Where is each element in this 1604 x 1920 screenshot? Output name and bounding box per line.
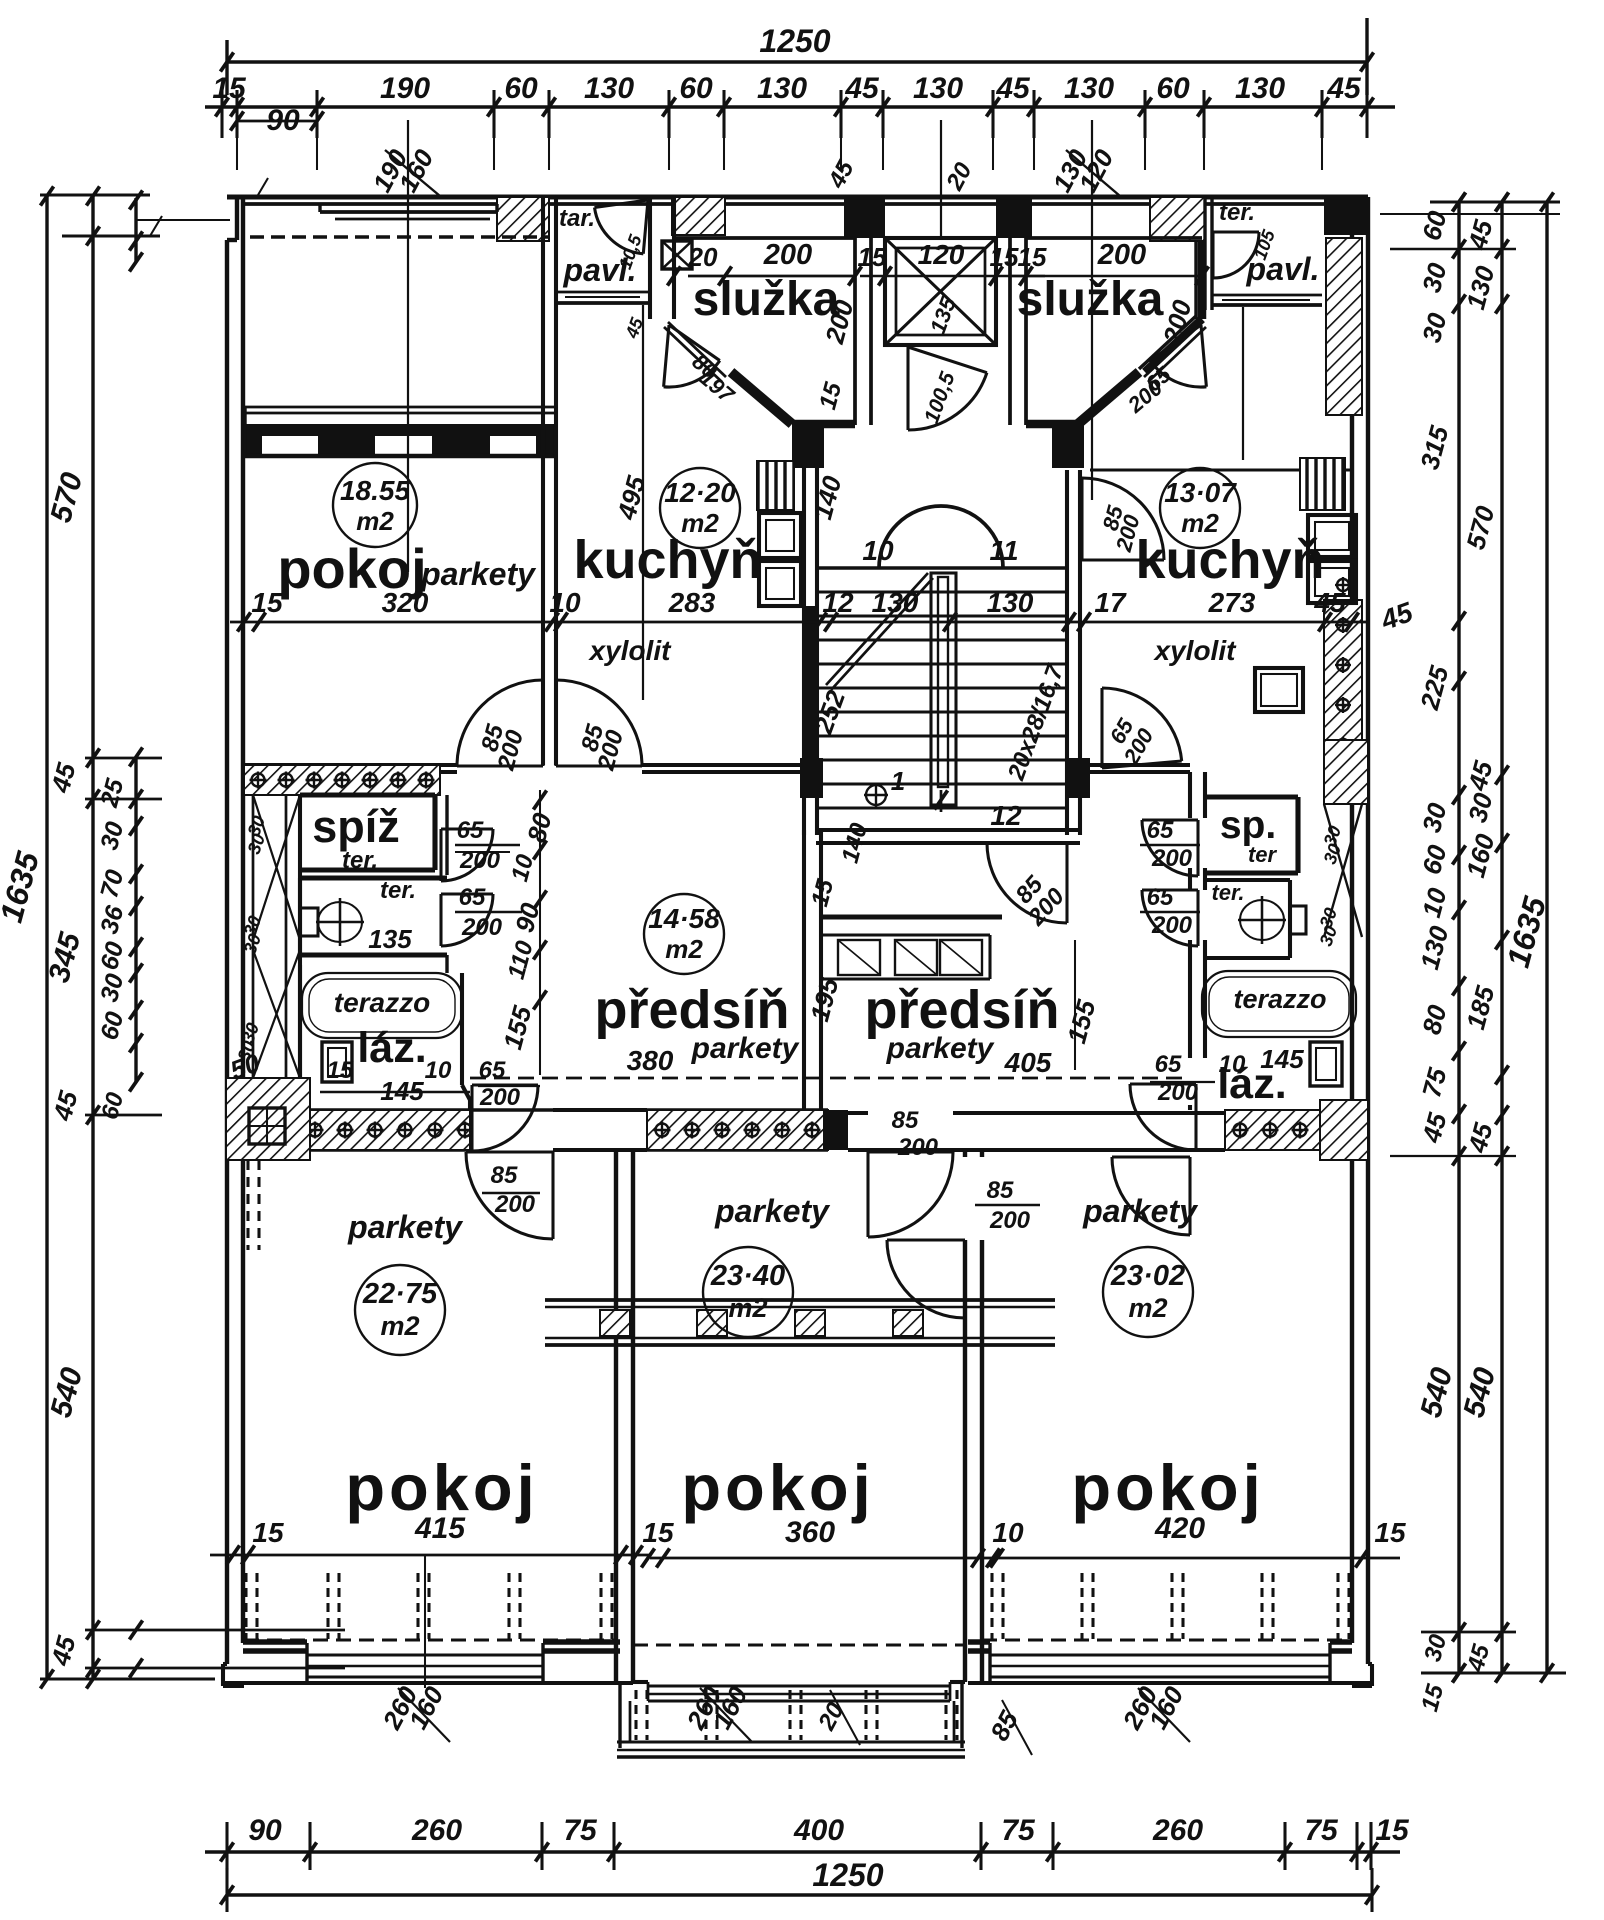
svg-text:420: 420 <box>1154 1512 1205 1545</box>
svg-text:xylolit: xylolit <box>1153 635 1238 666</box>
black pier below sluzka left <box>792 424 824 468</box>
left shaft column <box>298 795 302 1110</box>
svg-text:65: 65 <box>457 817 484 844</box>
bottom dimension chain <box>205 1850 1400 1853</box>
left corner hatch <box>226 1078 310 1160</box>
svg-text:85: 85 <box>987 1177 1014 1204</box>
pokoj window recess top <box>320 210 497 214</box>
svg-text:400: 400 <box>793 1814 844 1847</box>
svg-text:130: 130 <box>1235 72 1285 105</box>
svg-text:15: 15 <box>642 1517 674 1548</box>
radiator dashes pokoj C <box>634 1690 637 1740</box>
svg-text:služka: služka <box>1017 273 1164 326</box>
svg-text:m2: m2 <box>1128 1293 1167 1323</box>
wall pokojC/pokojR <box>963 1150 967 1157</box>
svg-text:415: 415 <box>414 1512 466 1545</box>
svg-text:m2: m2 <box>728 1293 767 1323</box>
sluzka left south wall <box>792 420 855 429</box>
right wall X brace <box>1324 804 1362 937</box>
svg-text:200: 200 <box>479 1084 521 1111</box>
svg-text:kuchyň: kuchyň <box>1135 530 1324 590</box>
svg-text:65: 65 <box>1147 817 1174 844</box>
kuchyn-R door from predsin <box>1100 688 1103 768</box>
svg-text:ter.: ter. <box>380 877 416 904</box>
svg-text:23·40: 23·40 <box>710 1260 785 1292</box>
wc door <box>441 892 493 895</box>
svg-text:předsíň: předsíň <box>594 980 789 1040</box>
sluzka left door leaf <box>668 322 726 377</box>
svg-text:14·58: 14·58 <box>648 903 720 934</box>
svg-text:spíž: spíž <box>312 801 400 852</box>
svg-text:260: 260 <box>411 1814 462 1847</box>
laz small fixture <box>322 1042 352 1082</box>
south band hatched segments with circles <box>300 1108 470 1111</box>
stair up arrow <box>826 573 928 685</box>
stairwell walls <box>802 463 806 835</box>
svg-text:parkety: parkety <box>691 1032 800 1065</box>
right corner hatch <box>1320 1100 1368 1160</box>
svg-text:parkety: parkety <box>420 556 537 592</box>
svg-text:m2: m2 <box>1181 508 1219 538</box>
svg-text:65: 65 <box>1155 1051 1182 1078</box>
svg-text:pokoj: pokoj <box>681 1451 874 1524</box>
svg-text:200: 200 <box>1151 845 1193 872</box>
svg-text:15: 15 <box>1374 1517 1406 1548</box>
svg-text:15: 15 <box>212 72 247 105</box>
svg-text:terazzo: terazzo <box>1233 984 1326 1014</box>
long extension line through pokoj window <box>407 120 409 572</box>
svg-text:45: 45 <box>844 72 880 105</box>
spiz door <box>441 827 493 830</box>
laz room left <box>298 965 302 1110</box>
shaft dims 15 120 15 <box>860 275 1045 278</box>
svg-text:pokoj: pokoj <box>277 537 426 600</box>
svg-text:283: 283 <box>668 587 716 618</box>
svg-text:parkety: parkety <box>1082 1193 1199 1229</box>
svg-text:m2: m2 <box>665 934 703 964</box>
svg-text:145: 145 <box>1260 1044 1304 1074</box>
svg-text:terazzo: terazzo <box>334 987 430 1018</box>
sluzka west wall <box>648 197 652 319</box>
svg-text:85: 85 <box>892 1107 919 1134</box>
svg-text:130: 130 <box>1064 72 1114 105</box>
right outer wall hatch upper <box>1326 238 1362 415</box>
svg-text:12: 12 <box>990 800 1022 831</box>
left fine chain <box>134 198 137 262</box>
svg-text:200: 200 <box>897 1134 939 1161</box>
hatched pier top 1 <box>497 197 549 241</box>
svg-text:45: 45 <box>1313 587 1346 618</box>
stair black piers bottom <box>800 758 823 798</box>
svg-text:15: 15 <box>990 242 1019 272</box>
svg-text:200: 200 <box>461 914 503 941</box>
pokoj R window & parapet <box>968 1639 990 1644</box>
pokoj R labels <box>1103 1247 1193 1337</box>
svg-text:65: 65 <box>459 884 486 911</box>
predsin dashed line <box>470 1077 1190 1080</box>
right fixture box <box>1310 1042 1342 1086</box>
svg-text:130: 130 <box>872 587 919 618</box>
svg-text:60: 60 <box>679 72 713 105</box>
wall pokoj-L / kuchyn-L <box>541 197 545 765</box>
svg-text:12: 12 <box>822 587 854 618</box>
outer left wall <box>225 240 229 1664</box>
svg-text:1250: 1250 <box>759 23 830 59</box>
door predsinL-pokojL <box>551 1152 554 1239</box>
sluzka left walls <box>674 236 855 240</box>
bathtub left <box>302 973 462 1038</box>
interior horizontal dimension chain <box>230 621 1368 624</box>
svg-text:200: 200 <box>763 239 812 271</box>
svg-text:13·07: 13·07 <box>1164 477 1237 508</box>
predsin L labels <box>644 894 724 974</box>
area circle pokoj L <box>333 463 417 547</box>
hatched pier top 2 <box>672 197 725 235</box>
wall predsin R north (y=770) <box>1084 763 1190 767</box>
svg-text:22·75: 22·75 <box>362 1278 438 1310</box>
kuchyn-R north edge & stove <box>1090 468 1352 471</box>
svg-text:135: 135 <box>368 924 412 954</box>
svg-text:ter.: ter. <box>1211 880 1244 905</box>
svg-text:405: 405 <box>1004 1047 1052 1078</box>
svg-text:15: 15 <box>858 242 887 272</box>
pokoj C window & balcony <box>633 1680 648 1684</box>
wc right door <box>1196 890 1199 946</box>
svg-text:ter.: ter. <box>342 847 378 874</box>
svg-text:75: 75 <box>1304 1814 1339 1847</box>
outer right wall <box>1366 197 1370 1664</box>
predsin R door from landing <box>1065 843 1068 923</box>
left chain 570/345/540 <box>91 195 94 1679</box>
sluzka left east wall <box>853 238 857 425</box>
bathtub right <box>1202 971 1356 1037</box>
svg-text:23·02: 23·02 <box>1110 1260 1185 1292</box>
wall pokojL/pokojC <box>614 1150 618 1682</box>
radiator dashes pokoj R <box>990 1573 993 1639</box>
hatched wall band with circles (north of spiz) <box>244 763 440 766</box>
shaft door fan <box>908 347 987 373</box>
svg-text:130: 130 <box>757 72 807 105</box>
black pier top 2 <box>996 197 1032 238</box>
svg-text:předsíň: předsíň <box>864 980 1059 1040</box>
svg-text:45: 45 <box>995 72 1031 105</box>
stair stringer <box>931 573 956 805</box>
sluzka right walls <box>1026 236 1202 240</box>
pokoj C labels <box>703 1247 793 1337</box>
svg-text:parkety: parkety <box>886 1032 995 1065</box>
top overall dimension line 1250 <box>227 60 1367 63</box>
band plain segments <box>470 1108 553 1111</box>
svg-text:120: 120 <box>918 239 965 270</box>
stair treads <box>817 590 1067 593</box>
kuchyn-R cupboards <box>1308 515 1356 557</box>
svg-text:láz.: láz. <box>357 1024 426 1072</box>
wall between predsin halls <box>802 830 806 1110</box>
hatched segment right <box>1225 1110 1344 1150</box>
svg-text:130: 130 <box>913 72 963 105</box>
kuchyn-R sink <box>1255 668 1303 712</box>
svg-text:1: 1 <box>891 766 905 796</box>
outer top wall <box>227 194 1368 199</box>
svg-text:parkety: parkety <box>714 1193 831 1229</box>
svg-text:85: 85 <box>491 1162 518 1189</box>
left pavl window box <box>662 241 692 269</box>
svg-text:380: 380 <box>627 1045 674 1076</box>
right gallery terrace <box>1203 197 1206 310</box>
laz dims <box>320 1091 470 1094</box>
sp door <box>1196 820 1199 876</box>
left gallery vestibule <box>556 291 648 294</box>
svg-text:190: 190 <box>380 72 430 105</box>
area circle kuchyn-L <box>660 468 740 548</box>
svg-text:15: 15 <box>252 1517 284 1548</box>
sluzka right canted wall <box>1078 372 1139 424</box>
svg-text:1250: 1250 <box>812 1857 883 1893</box>
black block predsin SE <box>823 1110 848 1150</box>
svg-text:17: 17 <box>1094 587 1127 618</box>
black pier top 1 <box>844 197 885 238</box>
svg-text:10: 10 <box>425 1057 452 1084</box>
apartment entry door right <box>1080 478 1083 560</box>
svg-text:360: 360 <box>785 1516 835 1549</box>
door arc pokoj C <box>963 1240 966 1318</box>
svg-text:10: 10 <box>992 1517 1024 1548</box>
svg-text:kuchyň: kuchyň <box>573 530 762 590</box>
door into pokoj R <box>1188 1157 1191 1235</box>
svg-text:m2: m2 <box>356 506 394 536</box>
right pavl window box <box>1327 244 1353 270</box>
left chain connectors <box>40 193 150 196</box>
stove kuchyn-L <box>757 461 794 510</box>
svg-text:200: 200 <box>1151 912 1193 939</box>
svg-text:m2: m2 <box>681 508 719 538</box>
svg-text:12·20: 12·20 <box>664 477 736 508</box>
svg-text:65: 65 <box>479 1057 506 1084</box>
svg-text:65: 65 <box>1147 884 1174 911</box>
svg-text:ter: ter <box>1248 842 1278 867</box>
bottom overall line 1250 <box>227 1893 1372 1896</box>
radiator dashes pokoj L <box>244 1573 247 1639</box>
black pier below sluzka right <box>1052 424 1084 468</box>
svg-text:200: 200 <box>1097 239 1146 271</box>
chimney dashes pokoj L top <box>246 1160 249 1250</box>
lift/vent shaft <box>885 238 996 345</box>
spiz room <box>300 792 435 797</box>
hatched pier top 3 <box>1150 197 1205 241</box>
svg-text:10: 10 <box>1219 1051 1246 1078</box>
svg-text:20: 20 <box>688 242 718 272</box>
svg-text:18.55: 18.55 <box>340 475 410 506</box>
extension line kitchen L <box>642 305 644 700</box>
svg-text:130: 130 <box>987 587 1034 618</box>
wc right <box>1205 878 1290 882</box>
laz east wall <box>460 973 464 1085</box>
right outer wall hatched duct <box>1324 600 1362 800</box>
svg-text:služka: služka <box>693 273 840 326</box>
svg-text:10: 10 <box>862 535 894 566</box>
svg-text:145: 145 <box>380 1076 424 1106</box>
svg-text:10: 10 <box>549 587 581 618</box>
svg-text:200: 200 <box>989 1207 1031 1234</box>
door pokojL-predsin <box>457 764 543 767</box>
svg-text:260: 260 <box>1152 1814 1203 1847</box>
svg-text:m2: m2 <box>380 1311 419 1341</box>
dashed sill lines <box>244 1638 616 1641</box>
laz door <box>472 1083 538 1086</box>
door kuchynL-predsin <box>554 680 557 766</box>
stair upper arc <box>879 506 1003 568</box>
wc room left <box>300 875 447 880</box>
sp room right <box>1205 794 1298 799</box>
toilet left <box>318 902 362 942</box>
right services hatch top <box>1324 740 1368 804</box>
svg-text:75: 75 <box>563 1814 598 1847</box>
svg-text:parkety: parkety <box>347 1209 464 1245</box>
svg-text:90: 90 <box>248 1814 282 1847</box>
wall predsin R / services R <box>1188 772 1192 818</box>
niche wardrobe <box>821 914 1002 919</box>
svg-text:200: 200 <box>494 1191 536 1218</box>
kuchyn-L cupboards <box>759 513 801 558</box>
svg-text:11: 11 <box>989 535 1018 566</box>
svg-text:273: 273 <box>1208 587 1256 618</box>
svg-text:pavl.: pavl. <box>563 252 637 288</box>
svg-text:75: 75 <box>1001 1814 1036 1847</box>
balcony center walls <box>618 1682 621 1748</box>
pokoj L inner chain <box>210 1554 650 1557</box>
balcony overhead band center <box>545 1298 1055 1302</box>
svg-text:xylolit: xylolit <box>588 635 673 666</box>
sluzka left canted wall with door <box>731 372 792 424</box>
sluzka right door leaf <box>1144 322 1202 377</box>
svg-text:tar.: tar. <box>559 205 595 232</box>
black pier top 3 <box>1324 197 1367 235</box>
svg-text:60: 60 <box>504 72 538 105</box>
svg-text:15: 15 <box>1375 1814 1410 1847</box>
wall above predsin L <box>244 763 457 767</box>
gallery railing band with posts <box>245 406 556 409</box>
svg-text:60: 60 <box>1156 72 1190 105</box>
svg-text:sp.: sp. <box>1220 804 1276 847</box>
right dimension chains <box>1457 202 1460 1673</box>
svg-text:15: 15 <box>327 1057 354 1084</box>
left outer dimension line 1635 <box>45 194 48 1679</box>
door predsinR-pokoj center <box>868 1150 953 1153</box>
stair landing wall bottom <box>816 828 1080 832</box>
laz right door <box>1194 1084 1197 1150</box>
pokoj L labels <box>355 1265 445 1355</box>
top dimension chain <box>205 105 1395 108</box>
svg-text:45: 45 <box>1326 72 1362 105</box>
svg-text:130: 130 <box>584 72 634 105</box>
svg-text:ter.: ter. <box>1219 199 1255 226</box>
pokoj L window & parapet <box>243 1639 307 1644</box>
sluzka right south wall <box>1026 420 1078 429</box>
